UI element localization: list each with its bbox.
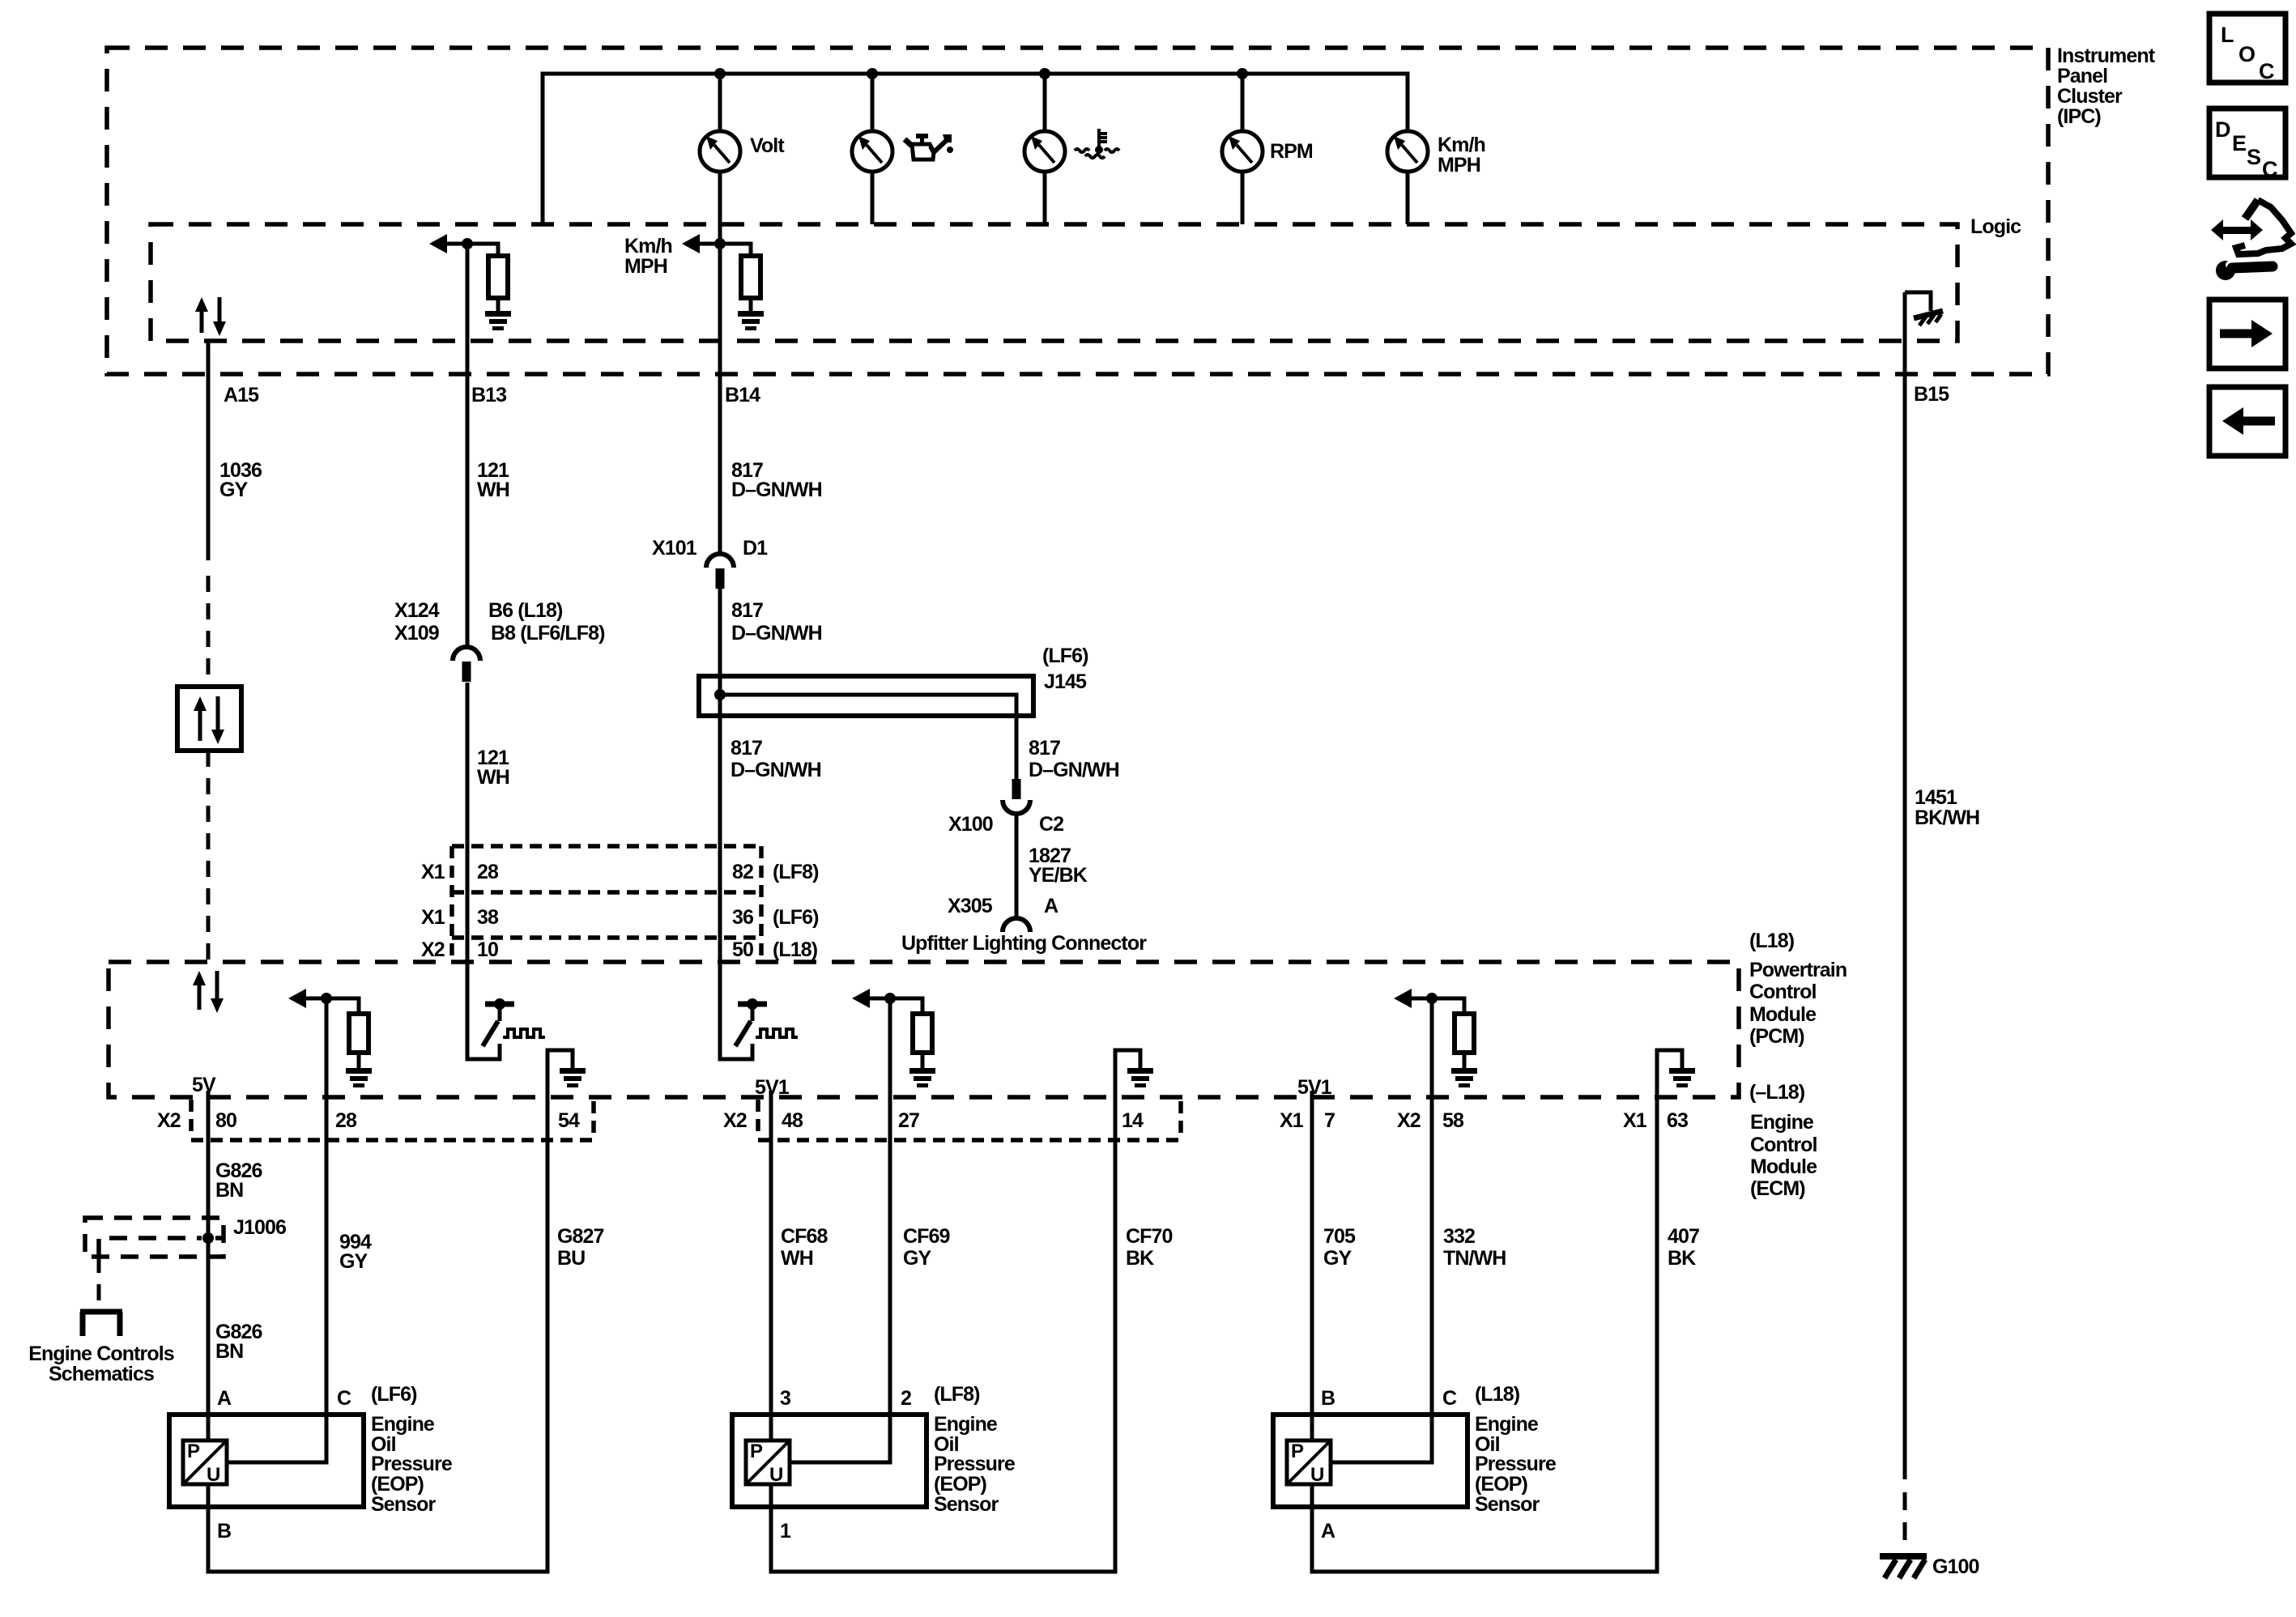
svg-text:332: 332: [1443, 1225, 1475, 1248]
svg-text:B14: B14: [725, 384, 760, 406]
label: 1036 GY: [219, 459, 262, 501]
svg-text:X109: X109: [394, 622, 439, 645]
connector X101 pin D1: [706, 554, 734, 589]
svg-text:O: O: [2238, 42, 2256, 66]
svg-text:A15: A15: [224, 384, 259, 406]
svg-text:817: 817: [731, 599, 763, 622]
junction dot in J145: [714, 689, 726, 700]
svg-text:X124: X124: [394, 599, 440, 622]
label: 1451 BK/WH: [1915, 786, 1979, 829]
connector pin row box (X2 48/27/14): [758, 1100, 1181, 1140]
svg-text:(L18): (L18): [1749, 930, 1795, 952]
svg-text:5V1: 5V1: [1297, 1076, 1332, 1099]
svg-text:J145: J145: [1044, 670, 1087, 693]
wire: 121 WH (B13 upper): [466, 244, 470, 648]
svg-text:WH: WH: [477, 479, 509, 501]
sidebar DESC box: [2209, 109, 2285, 181]
wire (dashed): 1036 GY lower: [207, 751, 211, 961]
svg-text:X305: X305: [948, 895, 993, 917]
gauge coolant temperature: [1024, 131, 1065, 172]
svg-text:C: C: [2259, 59, 2275, 83]
bidirectional signal arrows (1036 GY flow box): [194, 696, 224, 744]
svg-text:B: B: [217, 1520, 231, 1543]
svg-text:MPH: MPH: [624, 255, 667, 278]
wire: voltmeter gauge to logic: [718, 172, 722, 224]
svg-text:X2: X2: [1397, 1109, 1421, 1132]
svg-text:Schematics: Schematics: [49, 1363, 154, 1385]
svg-text:(ECM): (ECM): [1750, 1177, 1805, 1200]
svg-text:D: D: [2215, 117, 2231, 142]
svg-text:Module: Module: [1749, 1003, 1817, 1026]
svg-text:WH: WH: [781, 1247, 813, 1270]
label: CF70 BK: [1126, 1225, 1173, 1270]
wire: 817 D-GN/WH through J145: [720, 588, 752, 1059]
connector X100 pin C2: [1003, 779, 1030, 814]
svg-text:36: 36: [732, 906, 753, 929]
svg-text:2: 2: [901, 1387, 911, 1410]
junction dot (332 sense): [1426, 993, 1438, 1004]
PWM waveform icon (B13 speed out): [503, 1029, 545, 1037]
pin labels X2 80 28 54: [157, 1109, 580, 1132]
svg-text:BN: BN: [215, 1340, 243, 1363]
svg-text:BN: BN: [215, 1179, 243, 1202]
svg-text:48: 48: [782, 1109, 803, 1132]
ground (407 BK low ref): [1669, 1068, 1695, 1087]
P/U transducer symbol (EOP sensor 2): [746, 1440, 790, 1486]
label: Km/h MPH (B14 output): [624, 235, 672, 278]
connector X124/X109 pin B6/B8: [453, 647, 480, 682]
svg-text:B: B: [1321, 1387, 1335, 1410]
svg-text:BK: BK: [1668, 1247, 1696, 1270]
svg-text:G827: G827: [557, 1225, 604, 1248]
svg-text:Engine: Engine: [1750, 1111, 1814, 1134]
off-page reference bracket: [80, 1312, 122, 1336]
label: 407 BK: [1668, 1225, 1699, 1270]
svg-text:(EOP): (EOP): [934, 1473, 987, 1496]
wire: EOP sensor 2 supply/return through sensor: [771, 1050, 1115, 1572]
label: B6 (L18) / B8 (LF6/LF8): [488, 599, 605, 645]
junction on gauge bus at coolant temp gauge: [1039, 68, 1050, 79]
connector option boxes (LF8/LF6/L18 pinouts): [452, 846, 761, 961]
svg-text:GY: GY: [339, 1250, 368, 1273]
wire (dashed): 1036 GY: [207, 576, 211, 687]
bidirectional signal arrows (5V serial data (PCM)): [193, 971, 224, 1013]
resistor (994 GY sense pull-up): [326, 998, 368, 1068]
wire: speedometer gauge to logic: [1406, 172, 1410, 224]
junction dot (CF69 sense): [884, 993, 896, 1004]
svg-text:Engine: Engine: [934, 1413, 998, 1436]
svg-text:X1: X1: [1280, 1109, 1304, 1132]
svg-text:D–GN/WH: D–GN/WH: [731, 622, 822, 645]
svg-text:GY: GY: [219, 479, 249, 501]
PWM switch driver (B13 speed out): [483, 998, 514, 1046]
EOP sensor box (LF6): [169, 1415, 364, 1507]
svg-text:C: C: [2262, 157, 2278, 181]
pin labels X1 7 / X2 58 / X1 63: [1280, 1109, 1688, 1132]
svg-text:Engine: Engine: [371, 1413, 435, 1436]
svg-text:TN/WH: TN/WH: [1443, 1247, 1506, 1270]
labels: X1 38 | 36 (LF6): [421, 906, 819, 929]
svg-text:54: 54: [558, 1109, 580, 1132]
wire: EOP sensor 3 signal into sensor: [1331, 998, 1432, 1462]
svg-text:80: 80: [215, 1109, 236, 1132]
svg-text:Control: Control: [1750, 1134, 1817, 1156]
svg-text:(–L18): (–L18): [1749, 1081, 1805, 1104]
splice box J145 (LF6): [699, 676, 1033, 716]
resistor (B13 pull-down): [467, 244, 508, 311]
label: G827 BU: [557, 1225, 604, 1270]
svg-text:X1: X1: [1623, 1109, 1647, 1132]
label: 817 D-GN/WH (below J145 left): [731, 737, 821, 781]
label: 121 WH (lower): [477, 747, 509, 789]
wire: 121 WH (B13 lower): [467, 683, 500, 1059]
wire: bus drop to coolant temperature gauge: [1043, 74, 1047, 133]
label: (-L18) Engine Control Module (ECM): [1749, 1081, 1817, 1200]
svg-text:5V: 5V: [192, 1074, 216, 1096]
label: (LF6) J145: [1042, 645, 1088, 693]
svg-text:14: 14: [1122, 1109, 1144, 1132]
svg-text:Sensor: Sensor: [934, 1493, 999, 1516]
label: G826 BN (lower): [215, 1321, 262, 1363]
wire: EOP sensor 2 signal into sensor: [790, 998, 890, 1462]
svg-text:(LF6): (LF6): [371, 1383, 417, 1406]
svg-text:B15: B15: [1914, 383, 1949, 406]
svg-text:A: A: [1044, 895, 1059, 917]
svg-text:G100: G100: [1932, 1555, 1979, 1578]
pin labels X2 48 27 14: [723, 1109, 1144, 1132]
EOP sensor box (L18): [1273, 1415, 1467, 1507]
label: 332 TN/WH: [1443, 1225, 1506, 1270]
svg-text:B8 (LF6/LF8): B8 (LF6/LF8): [491, 622, 605, 645]
label: CF68 WH: [781, 1225, 829, 1270]
connector pin row box (X2 80/28/54): [191, 1100, 594, 1140]
svg-text:Control: Control: [1749, 981, 1817, 1003]
svg-text:C2: C2: [1039, 813, 1063, 836]
svg-text:Km/h: Km/h: [624, 235, 672, 257]
label: 817 D-GN/WH (upper): [731, 459, 822, 501]
label: Km/h MPH (speedometer): [1438, 134, 1485, 177]
svg-text:Pressure: Pressure: [371, 1453, 453, 1475]
splice J1006 option boxes (dashed): [85, 1218, 224, 1257]
svg-text:Upfitter Lighting Connector: Upfitter Lighting Connector: [901, 932, 1147, 955]
ground (994 GY sense resistor): [346, 1068, 372, 1087]
wire: EOP sensor 1 supply/return through sensor: [208, 1050, 547, 1572]
gauge voltmeter: [700, 131, 740, 172]
label: (LF6) Engine Oil Pressure (EOP) Sensor: [371, 1383, 453, 1516]
svg-text:28: 28: [477, 861, 499, 883]
svg-text:C: C: [337, 1387, 351, 1410]
wire: J145 branch to X100: [720, 695, 1016, 779]
wire: 1451 BK/WH (B15 to G100): [1903, 292, 1907, 1479]
svg-text:X1: X1: [421, 906, 445, 929]
svg-text:Km/h: Km/h: [1438, 134, 1485, 156]
svg-text:S: S: [2247, 145, 2261, 169]
svg-text:GY: GY: [1323, 1247, 1352, 1270]
svg-text:WH: WH: [477, 766, 509, 789]
svg-text:X2: X2: [723, 1109, 747, 1132]
wire: G827 BU low ref to internal ground: [547, 1050, 573, 1097]
resistor (332 sense pull-up): [1432, 998, 1474, 1068]
junction on gauge bus at Volt gauge: [714, 68, 726, 79]
wire: oil pressure gauge to logic: [871, 172, 875, 224]
svg-text:Pressure: Pressure: [1475, 1453, 1557, 1475]
svg-text:82: 82: [732, 861, 753, 883]
ground (B13 resistor): [485, 311, 511, 330]
svg-text:(LF8): (LF8): [773, 861, 819, 883]
PWM waveform icon (B14 speed out): [756, 1029, 798, 1037]
signal arrow (B14): [682, 234, 720, 253]
wire: bus drop to oil pressure gauge: [871, 74, 875, 133]
svg-text:D–GN/WH: D–GN/WH: [1029, 759, 1119, 781]
label: (LF8) Engine Oil Pressure (EOP) Sensor: [934, 1383, 1016, 1516]
svg-text:X100: X100: [948, 813, 993, 836]
svg-text:P: P: [187, 1440, 200, 1462]
icon: coolant temperature: [1075, 129, 1119, 158]
svg-text:BK/WH: BK/WH: [1915, 806, 1979, 829]
svg-text:P: P: [750, 1440, 763, 1462]
svg-text:817: 817: [731, 737, 762, 760]
svg-text:3: 3: [780, 1387, 790, 1410]
sidebar back arrow box: [2209, 387, 2285, 456]
label: (L18) Engine Oil Pressure (EOP) Sensor: [1475, 1383, 1557, 1516]
svg-text:Instrument: Instrument: [2057, 45, 2156, 67]
EOP sensor box (LF8): [732, 1415, 926, 1507]
module box: Instrument Panel Cluster (IPC) dashed outline: [107, 48, 2048, 374]
svg-text:E: E: [2232, 131, 2247, 155]
wire: coolant temperature gauge to logic: [1043, 172, 1047, 224]
wire: EOP sensor 1 signal into sensor: [227, 998, 326, 1462]
svg-text:BK: BK: [1126, 1247, 1154, 1270]
svg-text:(LF6): (LF6): [1042, 645, 1088, 667]
svg-text:Logic: Logic: [1970, 215, 2021, 238]
svg-text:BU: BU: [557, 1247, 585, 1270]
gauge speedometer: [1387, 131, 1428, 172]
svg-text:X2: X2: [421, 938, 445, 961]
svg-text:X101: X101: [652, 537, 697, 560]
svg-text:(LF8): (LF8): [934, 1383, 980, 1406]
flow arrow box on 1036 GY: [177, 687, 241, 751]
label: X101 / D1: [652, 537, 768, 560]
junction on gauge bus at RPM gauge: [1237, 68, 1248, 79]
label: 817 D-GN/WH (below J145 right): [1029, 737, 1119, 781]
label: 994 GY: [339, 1231, 372, 1273]
ground (332 sense resistor): [1451, 1068, 1477, 1087]
label: Engine Controls Schematics: [28, 1343, 174, 1385]
svg-text:Sensor: Sensor: [1475, 1493, 1540, 1516]
svg-text:Volt: Volt: [750, 134, 785, 157]
label: 817 D-GN/WH (middle): [731, 599, 822, 645]
svg-text:U: U: [1310, 1464, 1324, 1486]
svg-text:1: 1: [780, 1520, 791, 1543]
gauge oil pressure: [852, 131, 892, 172]
svg-text:Engine Controls: Engine Controls: [28, 1343, 174, 1365]
svg-text:Cluster: Cluster: [2057, 85, 2123, 108]
svg-text:7: 7: [1324, 1109, 1335, 1132]
label: 121 WH (upper): [477, 459, 509, 501]
svg-text:705: 705: [1323, 1225, 1356, 1248]
svg-text:10: 10: [477, 938, 498, 961]
label: X124 X109: [394, 599, 440, 645]
svg-text:D–GN/WH: D–GN/WH: [731, 479, 822, 501]
wire: EOP sensor 3 supply/return through sensor: [1312, 1050, 1657, 1572]
svg-text:A: A: [217, 1387, 232, 1410]
svg-text:L: L: [2221, 23, 2234, 47]
svg-text:58: 58: [1442, 1109, 1464, 1132]
svg-text:MPH: MPH: [1438, 154, 1480, 177]
resistor (CF69 sense pull-up): [890, 998, 932, 1068]
labels: X2 10 | 50 (L18): [421, 938, 818, 961]
label: (L18) Powertrain Control Module (PCM): [1749, 930, 1847, 1048]
svg-text:C: C: [1442, 1387, 1457, 1410]
svg-text:1451: 1451: [1915, 786, 1957, 809]
wire: IPC gauge supply bus: [543, 74, 1408, 224]
module box: Powertrain/Engine Control Module dashed outline: [109, 962, 1739, 1097]
junction dot (B14): [714, 238, 726, 249]
wire: tachometer gauge to logic: [1241, 172, 1245, 224]
signal arrow (994 GY sense): [288, 989, 326, 1008]
svg-text:P: P: [1291, 1440, 1304, 1462]
wire: 817 D-GN/WH (B14 from gauge): [718, 172, 722, 555]
sidebar vehicle diagnostic icon: [2211, 200, 2291, 280]
label: X100 / C2: [948, 813, 1063, 836]
svg-text:(EOP): (EOP): [1475, 1473, 1528, 1496]
chassis ground (IPC logic, B15): [1905, 292, 1943, 326]
wire: 407 BK low ref to internal ground: [1657, 1050, 1682, 1097]
P/U transducer symbol (EOP sensor 3): [1287, 1440, 1331, 1486]
junction dot J1006: [202, 1232, 214, 1244]
resistor (B14 pull-down): [720, 244, 760, 311]
svg-text:Engine: Engine: [1475, 1413, 1539, 1436]
svg-text:A: A: [1321, 1520, 1335, 1543]
signal arrow (332 sense): [1394, 989, 1432, 1008]
svg-text:CF69: CF69: [903, 1225, 950, 1248]
svg-text:Panel: Panel: [2057, 65, 2107, 87]
svg-text:27: 27: [898, 1109, 919, 1132]
svg-text:(L18): (L18): [773, 938, 818, 961]
junction dot (994 GY sense): [321, 993, 332, 1004]
svg-text:Powertrain: Powertrain: [1749, 959, 1847, 981]
signal arrow (B13): [429, 234, 467, 253]
ground (CF70 low ref): [1127, 1068, 1153, 1087]
svg-text:63: 63: [1667, 1109, 1688, 1132]
svg-text:D–GN/WH: D–GN/WH: [731, 759, 821, 781]
svg-text:B6 (L18): B6 (L18): [488, 599, 563, 622]
svg-text:YE/BK: YE/BK: [1029, 864, 1088, 887]
svg-text:(EOP): (EOP): [371, 1473, 424, 1496]
label: G826 BN (upper): [215, 1160, 262, 1202]
svg-text:38: 38: [477, 906, 499, 929]
junction dot (B13): [462, 238, 473, 249]
label: CF69 GY: [903, 1225, 950, 1270]
svg-text:Sensor: Sensor: [371, 1493, 437, 1516]
wire: bus drop to speedometer gauge: [1406, 74, 1410, 133]
ground (G827 BU low ref): [560, 1068, 586, 1087]
wire: bus drop to tachometer gauge: [1241, 74, 1245, 133]
svg-text:X2: X2: [157, 1109, 181, 1132]
svg-text:(L18): (L18): [1475, 1383, 1520, 1406]
wire (dashed): to Engine Controls Schematics: [97, 1257, 101, 1308]
svg-text:407: 407: [1668, 1225, 1699, 1248]
svg-text:J1006: J1006: [233, 1216, 286, 1239]
icon: engine oil can: [905, 134, 953, 160]
svg-text:(PCM): (PCM): [1749, 1025, 1804, 1048]
svg-text:D1: D1: [743, 537, 768, 560]
label: 705 GY: [1323, 1225, 1356, 1270]
sidebar forward arrow box: [2209, 300, 2285, 368]
svg-text:U: U: [769, 1464, 783, 1486]
ground (B14 resistor): [738, 311, 764, 330]
junction on gauge bus at oil pressure gauge: [867, 68, 878, 79]
signal arrow (CF69 sense): [852, 989, 890, 1008]
label: Instrument Panel Cluster (IPC): [2057, 45, 2156, 128]
logic box: IPC Logic dashed outline: [151, 224, 1957, 341]
ground (CF69 sense resistor): [909, 1068, 935, 1087]
wire: 1036 GY (A15): [207, 341, 211, 560]
svg-text:28: 28: [335, 1109, 357, 1132]
ground G100: [1880, 1556, 1927, 1578]
svg-text:Pressure: Pressure: [934, 1453, 1016, 1475]
svg-text:U: U: [207, 1464, 220, 1486]
P/U transducer symbol (EOP sensor 1): [183, 1440, 227, 1486]
wire: CF70 low ref to internal ground: [1115, 1050, 1140, 1097]
svg-text:Module: Module: [1750, 1155, 1817, 1178]
wire: bus drop to voltmeter gauge: [718, 74, 722, 133]
wire (dashed): 1451 BK/WH to G100: [1903, 1492, 1907, 1549]
label: X305 / A: [948, 895, 1059, 917]
label: 1827 YE/BK: [1029, 845, 1088, 887]
svg-text:GY: GY: [903, 1247, 932, 1270]
PWM switch driver (B14 speed out): [735, 998, 767, 1046]
svg-text:(LF6): (LF6): [773, 906, 819, 929]
wire: 1827 YE/BK: [1015, 814, 1019, 918]
svg-text:CF68: CF68: [781, 1225, 829, 1248]
sidebar LOC box: [2209, 14, 2285, 83]
svg-text:50: 50: [732, 938, 753, 961]
connector X305 pin A (Upfitter): [1003, 918, 1030, 932]
svg-text:B13: B13: [471, 384, 506, 406]
svg-text:817: 817: [1029, 737, 1060, 760]
svg-text:(IPC): (IPC): [2057, 105, 2101, 128]
labels: X1 28 | 82 (LF8): [421, 861, 819, 883]
svg-text:X1: X1: [421, 861, 445, 883]
gauge tachometer: [1222, 131, 1263, 172]
bidirectional signal arrows (A15 serial data): [195, 297, 226, 336]
svg-text:CF70: CF70: [1126, 1225, 1173, 1248]
svg-text:RPM: RPM: [1270, 140, 1313, 163]
